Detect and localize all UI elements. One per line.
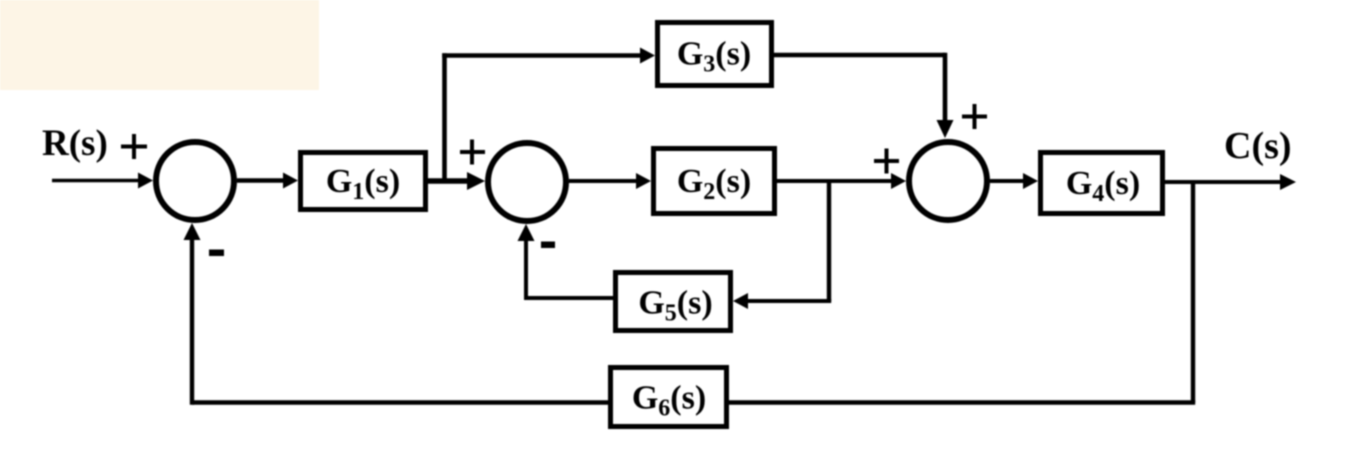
- wire S2 to G2: [569, 179, 639, 183]
- summing junction S2: [488, 143, 566, 221]
- block G4: [1041, 153, 1163, 214]
- arrowhead into G3: [640, 48, 655, 64]
- wire up to S1 bottom: [190, 235, 194, 405]
- arrowhead into G2: [636, 173, 651, 189]
- cream highlight rectangle top-left: [0, 0, 319, 90]
- plus sign above S2: [460, 140, 485, 165]
- block G2: [654, 149, 775, 214]
- summing junction S1: [156, 142, 234, 220]
- arrowhead into G5 right side: [733, 293, 748, 309]
- output arrowhead: [1280, 174, 1296, 190]
- svg-text:G5(s): G5(s): [638, 285, 712, 327]
- arrowhead into S1: [138, 173, 153, 189]
- arrowhead into G1: [283, 173, 298, 189]
- branch node after G1, wire up: [442, 53, 447, 181]
- arrowhead down into S3 top: [937, 120, 954, 138]
- wire input R(s) to S1: [52, 179, 141, 183]
- branch after G2, wire down to G5 path: [827, 181, 831, 301]
- arrowhead up into S2 bottom: [518, 224, 535, 241]
- svg-text:G4(s): G4(s): [1066, 165, 1140, 207]
- wire G3 to corner then down to S3: [774, 53, 945, 58]
- branch after G4 (output), wire down to bottom feedback: [1191, 182, 1195, 403]
- wire S3 to G4: [990, 179, 1026, 183]
- block G1: [301, 153, 426, 210]
- svg-text:G3(s): G3(s): [677, 36, 751, 78]
- wire G2 to S3: [777, 179, 894, 183]
- bottom feedback wire right segment to G6: [729, 400, 1195, 404]
- arrowhead up into S1 bottom: [184, 223, 201, 240]
- svg-text:G1(s): G1(s): [326, 163, 400, 205]
- block G6: [611, 368, 727, 427]
- block G3: [658, 23, 772, 86]
- plus sign left of S3: [874, 149, 899, 174]
- minus sign below-right of S1: [209, 250, 224, 257]
- minus sign below-right of S2: [541, 242, 555, 249]
- bottom feedback wire left segment from G6: [192, 400, 608, 404]
- plus sign above-right of S3: [962, 104, 987, 129]
- plus sign at summer S1 input: [121, 134, 147, 159]
- wire right branch to G5: [745, 299, 831, 303]
- svg-text:C(s): C(s): [1224, 125, 1292, 167]
- wire G5 left to corner: [524, 296, 613, 300]
- wire corner up to S2 bottom: [524, 236, 528, 300]
- svg-text:R(s): R(s): [42, 123, 108, 164]
- summing junction S3: [909, 142, 987, 220]
- arrowhead into S2: [467, 172, 485, 190]
- wire G4 to output C(s): [1165, 180, 1283, 184]
- block G5: [616, 273, 731, 331]
- wire top branch to G3: [442, 53, 643, 58]
- svg-text:G2(s): G2(s): [677, 163, 751, 205]
- arrowhead into S3: [891, 173, 906, 189]
- wire G1 to S2 (thick): [428, 178, 472, 184]
- svg-text:G6(s): G6(s): [632, 380, 706, 422]
- wire S1 to G1: [237, 178, 286, 182]
- arrowhead into G4: [1023, 173, 1038, 189]
